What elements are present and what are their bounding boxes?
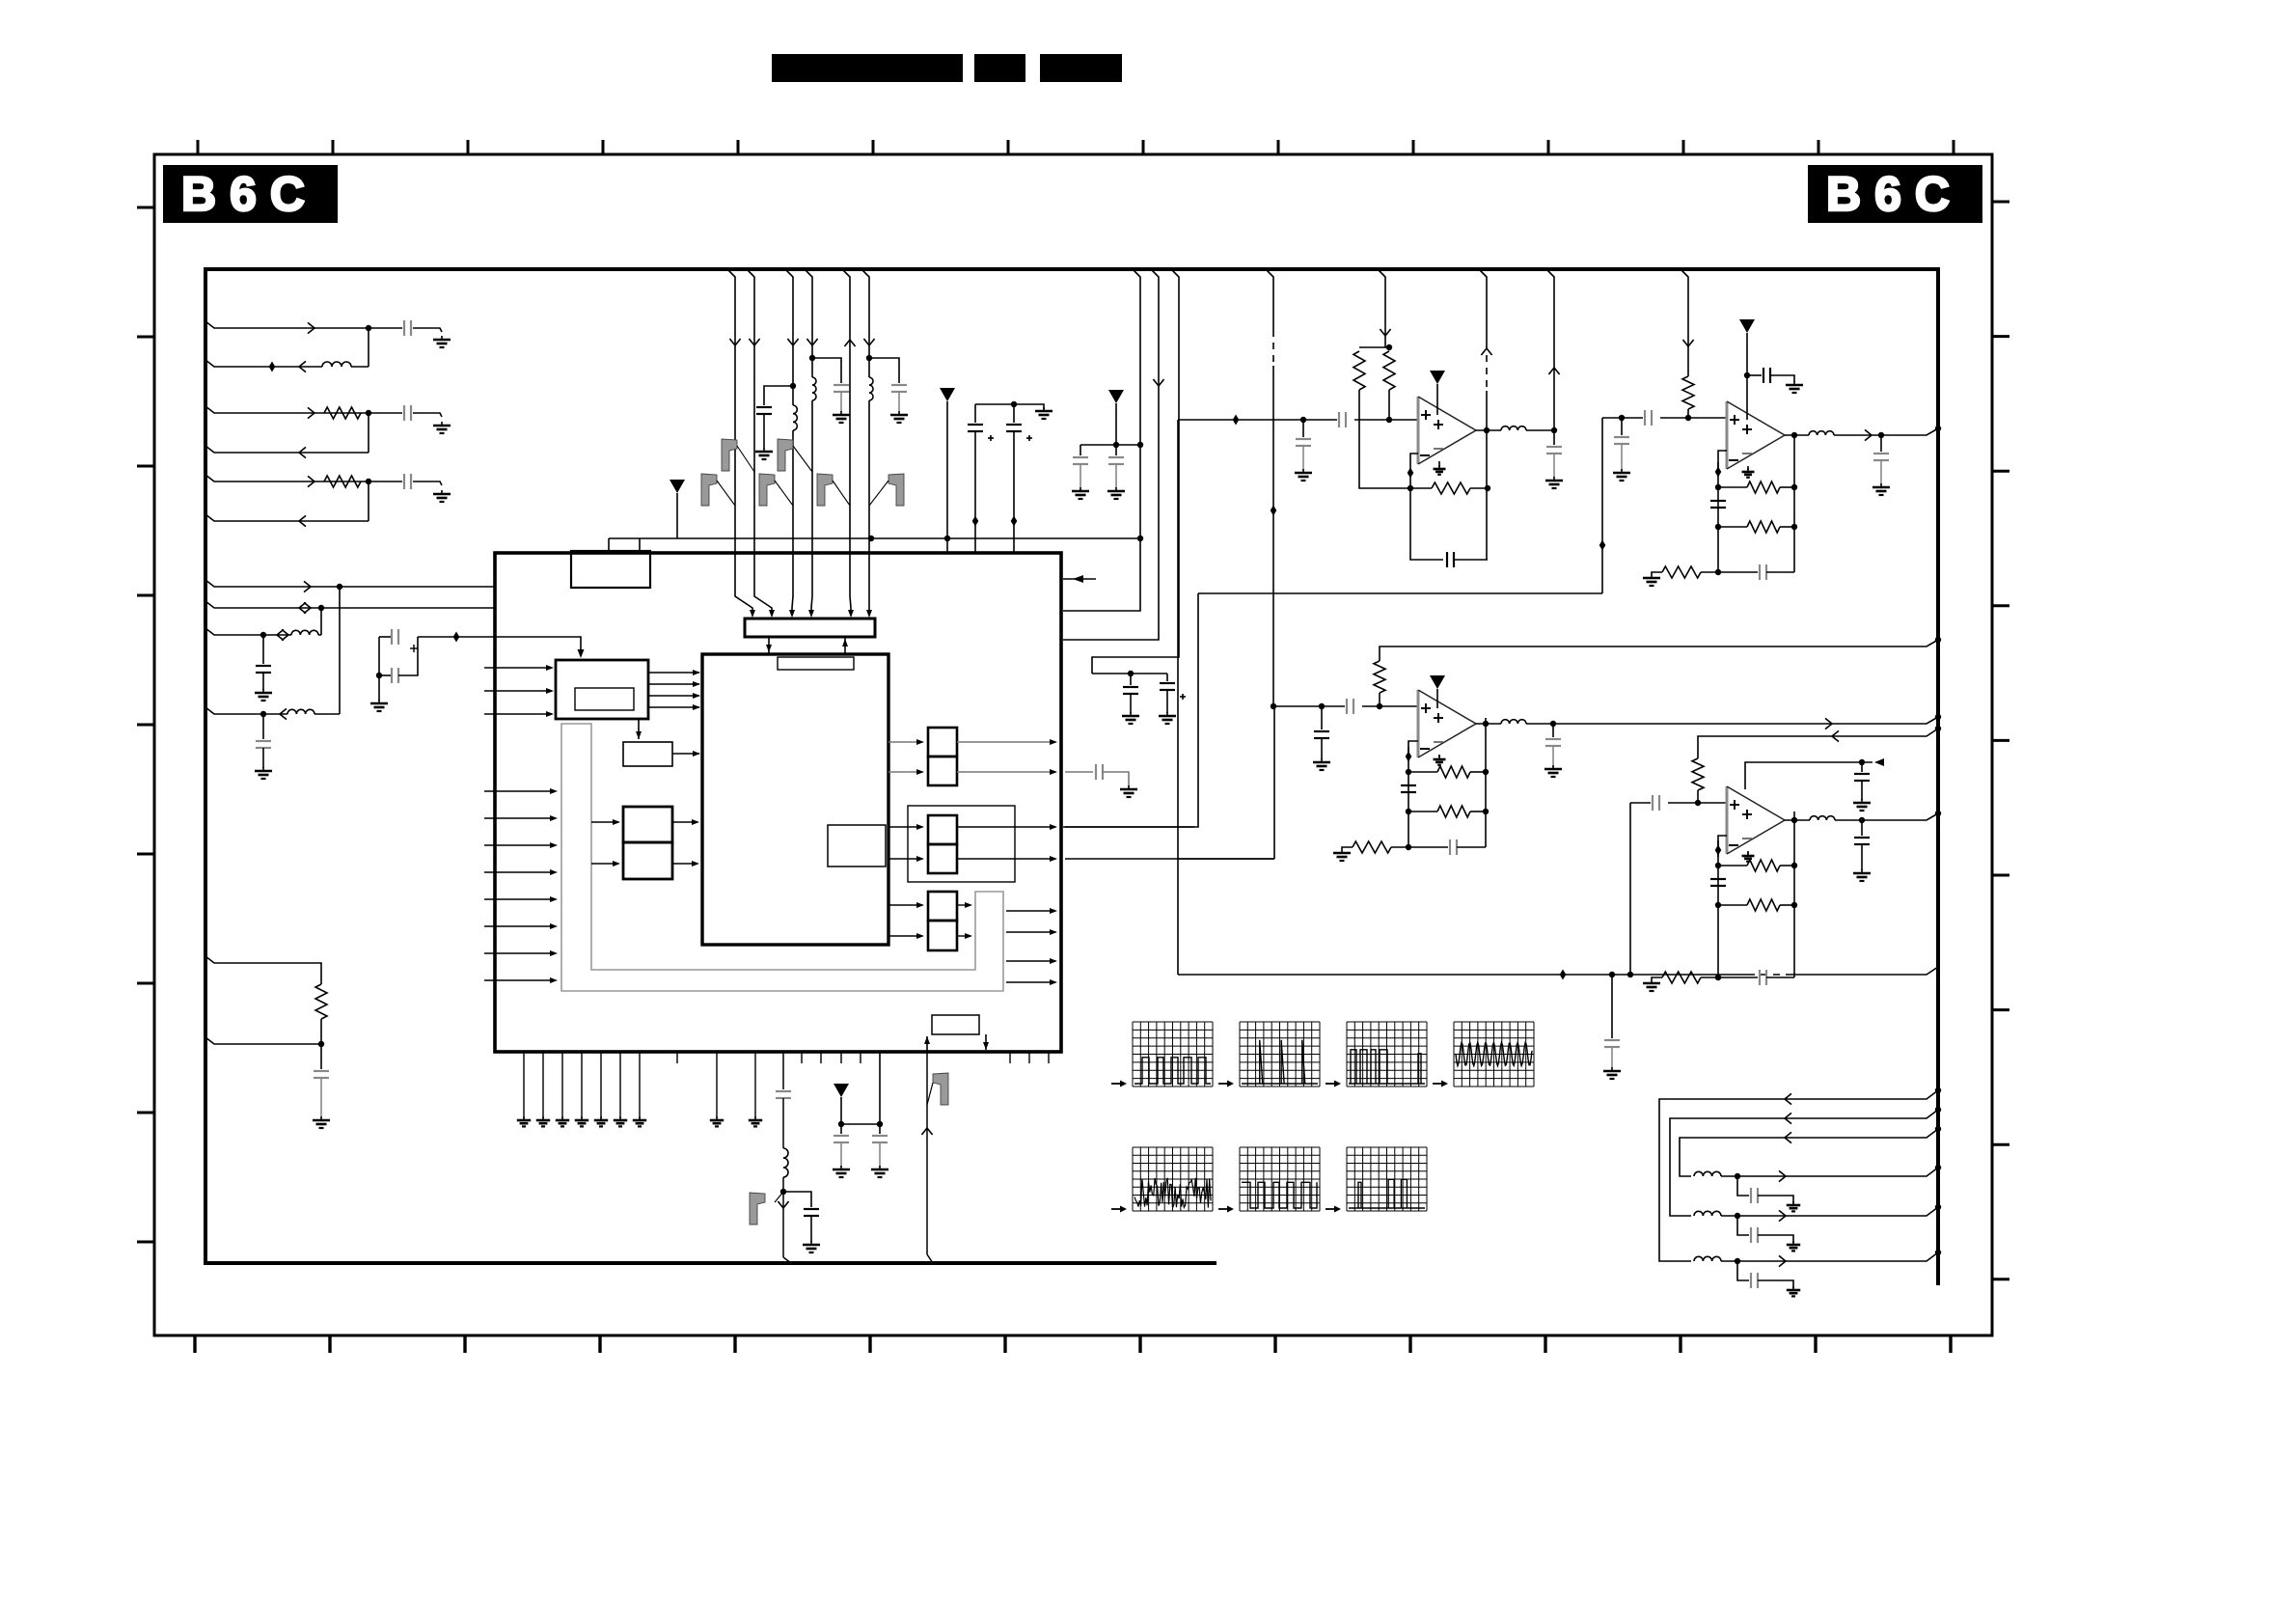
resistor R2 (324, 476, 361, 487)
wire net x=1320 upper (1266, 269, 1273, 330)
wire W79 (1718, 977, 1758, 978)
connector flag P1 (722, 439, 737, 471)
wire pin chain x=812 c (782, 1177, 784, 1257)
ground GND4 (255, 689, 272, 701)
wire net x=1320 lower (1272, 366, 1274, 706)
arrowhead AH17 (546, 688, 554, 694)
wire W78 (1701, 977, 1718, 978)
wire cap cluster rail (1092, 673, 1167, 674)
wire arrow A32 (1779, 1210, 1786, 1221)
node N4 (1011, 516, 1018, 527)
wire W18 (763, 414, 765, 449)
wire core to regD1 (888, 904, 922, 906)
node junction J50 (1483, 809, 1489, 814)
node N11 (1406, 752, 1412, 762)
wire W19 (840, 392, 842, 412)
capacitor C_f2g (1760, 564, 1766, 580)
wire pin chain x=812 b (782, 1098, 784, 1148)
capacitor C_s4 gap cover (1651, 801, 1668, 805)
wire W42 (1470, 487, 1488, 489)
wire IC pin x=912 (879, 1052, 881, 1124)
wire IC ground pin x=563 (542, 1052, 544, 1118)
node junction J52 (1483, 721, 1489, 727)
wire W68 (1457, 846, 1486, 848)
wire W28 (1115, 464, 1117, 488)
border scale ticks top (198, 140, 1954, 154)
node junction J1 (366, 325, 371, 331)
IC pin stub x=831 (801, 1052, 803, 1063)
wire IC ground pin x=623 (600, 1052, 602, 1118)
node junction J41 (1878, 432, 1884, 438)
arrowhead AH43 (1050, 908, 1057, 914)
wire IC pin stub y=1016 (484, 979, 556, 981)
node junction J25 (1300, 417, 1306, 423)
connector flag P5 (817, 474, 833, 506)
wire net y=670 to bus (1380, 640, 1938, 661)
arrowhead AH2 (750, 610, 755, 618)
wire W56 (1766, 571, 1794, 573)
node N1 (269, 362, 276, 372)
node junction J3 (366, 479, 371, 484)
ground GND34 (1872, 483, 1890, 495)
wire IC ground pin x=583 (561, 1052, 563, 1118)
wire W16 (639, 538, 641, 551)
wire f3 fb right vertical (1485, 718, 1487, 847)
node junction J46 (1935, 637, 1941, 643)
node junction J59 (1715, 902, 1721, 908)
wire W49 (1718, 486, 1747, 488)
ground GND17 (517, 1116, 531, 1126)
wire LC cap branch 1 (1737, 1261, 1749, 1280)
wire IC pin into decoder y=740 (484, 713, 552, 715)
wire LC channel 2 return (1721, 1207, 1938, 1216)
wire net IC y=857 riser x=1242 (1063, 593, 1198, 827)
wire regC2 ext to opamp net (1065, 858, 1274, 860)
wire LC channel 3 return (1721, 1168, 1938, 1176)
arrowhead AH28 (613, 861, 620, 867)
node junction J54 (1935, 714, 1941, 720)
wire arrow A8 (299, 602, 306, 613)
wire W12 (378, 675, 380, 701)
arrowhead AH4 (789, 610, 795, 618)
ground GND19 (556, 1116, 569, 1126)
resistor R_f2b (1747, 521, 1780, 533)
node N12 (1715, 845, 1722, 856)
arrowhead AH3 (769, 610, 775, 618)
wire input row y=340 (205, 321, 369, 328)
wire arrow A3 (308, 407, 314, 418)
resistor R_f4b (1747, 899, 1780, 911)
node N3 (972, 516, 979, 527)
title block redaction bar 2 (974, 54, 1025, 82)
wire core to regC1 (888, 826, 922, 828)
wire arrow A1 (308, 322, 314, 333)
arrowhead AH38 (1050, 856, 1057, 862)
flag P7 tail (775, 1192, 783, 1202)
wire gray-bus to regA2 (591, 863, 618, 865)
wire IC ground pin x=603 (581, 1052, 583, 1118)
inductor L_lc3 (1694, 1171, 1721, 1178)
flag P2 tail (793, 446, 812, 472)
node junction J22 (1137, 536, 1143, 541)
node junction J47 (1406, 769, 1411, 775)
wire pin chain diag (783, 1257, 791, 1263)
capacitor C9 (756, 407, 772, 414)
node N10 (1715, 467, 1722, 478)
capacitor C_p3 (834, 1136, 849, 1142)
capacitor C_lc2 (1751, 1227, 1758, 1243)
wire IC ground pin x=543 (523, 1052, 525, 1118)
wire f4 fb right vertical (1793, 811, 1795, 977)
node junction J21 (1137, 442, 1143, 448)
wire VCC3 rail (841, 1123, 880, 1125)
ground GND6 (370, 700, 388, 711)
node junction J38 (1791, 524, 1797, 530)
wire bus line 5 from top (842, 269, 851, 616)
arrowhead AH12 (693, 693, 700, 699)
ground GND11 (1035, 407, 1052, 419)
node junction J7 (260, 711, 266, 717)
wire bus line 2 from top (747, 269, 772, 616)
IC pin stub x=1047 (1009, 1052, 1011, 1063)
wire W82 (1861, 844, 1863, 870)
wire opamp2 output to bus (1834, 428, 1938, 435)
wire W14 (320, 1078, 322, 1117)
capacitor C_t4a (1854, 774, 1870, 781)
arrowhead AH40 (916, 933, 924, 939)
wire net row y=630 (205, 601, 495, 608)
wire arrow A14 (749, 339, 759, 345)
ground GND35 (1313, 758, 1330, 770)
capacitor C_s4 (series) (1653, 795, 1659, 811)
arrowhead AH46 (1050, 979, 1057, 985)
wire opamp4 gnd stem (1747, 851, 1749, 854)
wire W24 (1013, 431, 1015, 553)
wire W77 (1652, 977, 1662, 979)
arrowhead AH1 (578, 649, 585, 658)
node junction J55 (1935, 726, 1941, 731)
wire core to regC2 (888, 858, 922, 860)
capacitor C_r1 (1123, 687, 1138, 694)
wire R_a4 to input (1379, 693, 1380, 706)
latch box (623, 742, 672, 766)
node junction J39 (1715, 569, 1721, 575)
wire IC ground pin x=783 (754, 1052, 756, 1118)
wire opamp4 output (1785, 819, 1810, 821)
node junction J56 (1695, 800, 1701, 806)
wire return row y=469 (205, 446, 369, 453)
node junction J71 (1935, 1204, 1941, 1210)
wire arrow A24 (1548, 368, 1559, 374)
arrowhead AH13 (693, 704, 700, 710)
scope waveform display (sq2) (1240, 1147, 1320, 1211)
ground GND40 (1787, 1241, 1800, 1251)
wire LC channel 1 return (1721, 1252, 1938, 1261)
node junction J18 (780, 1189, 786, 1195)
svg-text:B6C: B6C (181, 167, 318, 221)
wire LC channel 2 feed (1670, 1110, 1938, 1216)
wire LC channel 3 feed (1680, 1129, 1938, 1176)
resistor R_f1 (1432, 482, 1470, 494)
wire opamp3 output (1476, 723, 1501, 725)
power supply symbol VA1 (1430, 371, 1445, 384)
wire W71 (1861, 762, 1863, 772)
ground GND18 (536, 1116, 550, 1126)
node junction J35 (1715, 484, 1721, 490)
wire W37 (879, 1142, 881, 1167)
node N9 (1408, 468, 1414, 479)
arrowhead AH42 (965, 933, 972, 939)
node junction J51 (1406, 844, 1411, 850)
flag P4 tail (775, 481, 793, 506)
ground GND32 (1613, 469, 1630, 481)
resistor bracket opamp1 (1359, 346, 1389, 348)
arrowhead AH44 (1050, 929, 1057, 935)
wire net x=1611 (1546, 269, 1554, 430)
wire W17 (676, 493, 678, 538)
capacitor C_s2 (series) (1645, 410, 1652, 426)
wire arrow A20 (921, 1128, 932, 1135)
register pair A upper (623, 807, 672, 842)
node junction J24 (1627, 972, 1633, 977)
wire opamp2 output (1785, 434, 1809, 436)
inductor L_p1 (781, 1148, 788, 1177)
arrowhead AH11 (693, 681, 700, 687)
wire LC channel 1 feed (1659, 1090, 1938, 1261)
wire y=1010 dashed segment (1748, 974, 1787, 976)
wire arrow A34 (1779, 1170, 1786, 1181)
capacitor C_lc1 (1751, 1273, 1758, 1288)
wire IC output stub y=966 (1006, 931, 1055, 933)
oscillator box on IC top (571, 551, 650, 588)
arrowhead AH18 (546, 711, 554, 717)
wire arrow A33 (1785, 1132, 1791, 1142)
scope arrow SA5 (1111, 1206, 1127, 1213)
wire W23 (1013, 404, 1015, 423)
wire opamp4 top tap (1745, 762, 1872, 789)
wire W33 (1166, 690, 1168, 713)
wire W69 (1552, 724, 1554, 737)
arrowhead AH29 (692, 819, 699, 825)
wire arrow A6 (299, 515, 306, 526)
wire W64 (1470, 811, 1486, 812)
zone label B6C top-left (163, 165, 338, 223)
register pair B upper (928, 728, 957, 756)
ground GND29 (1603, 1067, 1621, 1079)
wire regC1 out (957, 826, 1055, 828)
ground GND23 (633, 1116, 646, 1126)
wire W36 (879, 1124, 881, 1134)
wire branch to C_p2 (783, 1192, 811, 1207)
wire regC2 out (957, 858, 1055, 860)
node junction J13 (809, 355, 815, 361)
wire W11 (379, 674, 392, 676)
wire arrow A26 (1865, 429, 1872, 440)
node junction J2 (366, 410, 371, 416)
arrowhead AH34 (1050, 769, 1057, 775)
capacitor C8 (314, 1071, 329, 1078)
register pair C lower (928, 844, 957, 873)
power supply symbol VCC1 (670, 480, 685, 493)
resistor R_f3a (1437, 766, 1470, 778)
wire arrow A5 (308, 476, 314, 486)
resistor R_a2 (1383, 351, 1395, 390)
scope waveform display (noise) (1133, 1147, 1213, 1211)
wire elco node A top (379, 636, 392, 638)
node junction J11 (944, 536, 950, 541)
wire arrow A11 (282, 629, 288, 640)
wire W83 (1758, 1280, 1793, 1288)
wire arrow A23 (1481, 348, 1491, 355)
resistor R_f2c (1662, 566, 1701, 578)
node junction J36 (1715, 524, 1721, 530)
wire regD2 to gray bus (957, 935, 970, 937)
wire bus line 1 from top (727, 269, 752, 616)
wire opamp4 input (1630, 802, 1727, 804)
wire latch to core (672, 753, 699, 755)
wire W39 (1302, 420, 1304, 437)
capacitor C_s2 gap cover (1643, 416, 1660, 420)
capacitor C_f3g (1450, 839, 1457, 855)
wire return row y=540 (205, 514, 369, 521)
wire W4 (413, 413, 442, 417)
wire arrow A27 (1825, 718, 1832, 729)
wire regB2 ext (1065, 771, 1093, 773)
flag P6 tail (869, 481, 888, 506)
arrowhead AH36 (916, 856, 924, 862)
arrowhead AH14 (636, 731, 642, 739)
ground GND15 (1122, 712, 1139, 724)
wire arrow A2 (299, 361, 306, 371)
wire bus to opamp4 R (1698, 729, 1938, 758)
node junction J19 (838, 1121, 844, 1127)
capacitor C_n1 (1604, 1040, 1620, 1047)
wire core to regB1 (888, 741, 922, 743)
node N5 (1599, 540, 1606, 551)
wire x=1541 dashed (1486, 355, 1488, 391)
wire arrow A15 (787, 339, 798, 345)
ground f3 fb (1333, 849, 1351, 861)
register strip in core box (778, 657, 854, 670)
zone label B6C top-right (1808, 165, 1982, 223)
capacitor C_f3m (1401, 785, 1416, 792)
bottom status box in IC (932, 1015, 979, 1034)
wire LC cap branch 3 (1737, 1176, 1749, 1196)
ground f2 fb (1643, 574, 1660, 586)
ground GND7 (313, 1116, 330, 1128)
scope arrow SA6 (1218, 1206, 1234, 1213)
wire bus line 6 from top (861, 269, 869, 616)
node N2 (453, 632, 460, 643)
wire IC pin stub y=820 (484, 790, 556, 792)
node junction J4 (337, 584, 342, 590)
wire W52 (1780, 526, 1794, 528)
wire arrow A7 (304, 581, 311, 591)
inductor L_o2 (1809, 431, 1834, 437)
wire vertical x=352 (339, 587, 341, 714)
wire IC pin into decoder y=716 (484, 690, 552, 692)
wire IC pin stub y=876 (484, 844, 556, 846)
wire W31 (1130, 694, 1132, 713)
capacitor C_i2 (1614, 437, 1629, 444)
node junction J14 (866, 355, 872, 361)
wire down from status box (985, 1034, 987, 1050)
wire W43 (1526, 429, 1554, 431)
connector flag P6 (888, 474, 904, 506)
wire IC pin stub y=988 (484, 952, 556, 954)
ground GND27 (833, 1166, 850, 1177)
wire W1 (369, 327, 402, 329)
wire W48 (1770, 375, 1794, 382)
wire W55 (1718, 571, 1758, 573)
wire W34 (810, 1216, 812, 1242)
wire opamp1 feedback bottom (1454, 559, 1488, 561)
capacitor C_f4m (1710, 879, 1726, 886)
wire regC1 ext (1065, 826, 1194, 828)
capacitor C3 (404, 474, 411, 489)
capacitor C12 (1073, 457, 1088, 464)
border scale ticks left (137, 207, 154, 1242)
node junction J68 (1935, 1250, 1941, 1255)
wire bus line 4 from top (805, 269, 812, 616)
wire riser x=961 (926, 1052, 928, 1254)
arrowhead AH35 (916, 824, 924, 830)
node junction J43 (1271, 703, 1276, 709)
power supply symbol VCC2 (940, 388, 955, 401)
wire W40 (1302, 446, 1304, 470)
connector flag P8 (933, 1073, 948, 1105)
node junction J23 (1609, 972, 1615, 977)
wire R_a5 to input (1697, 790, 1699, 803)
wire W47 (1621, 444, 1623, 470)
op-amp U2B (1727, 401, 1785, 469)
flag P1 tail (737, 446, 754, 472)
op-amp U2A (1418, 397, 1476, 464)
register pair B lower (928, 756, 957, 785)
resistor R_a1 (1353, 351, 1365, 390)
wire W75 (1718, 904, 1747, 906)
wire W53 (1652, 572, 1662, 574)
ground opamp3 (1434, 756, 1446, 765)
node junction J5 (318, 605, 324, 611)
capacitor C1 (404, 320, 411, 336)
node N6 (1560, 970, 1567, 980)
wire arrow A9 (304, 602, 311, 613)
arrowhead AH23 (550, 896, 558, 902)
CPU core box inside IC (702, 654, 888, 945)
wire regA1 to core (672, 821, 697, 823)
arrowhead AH26 (550, 977, 558, 983)
arrowhead AH32 (916, 769, 924, 775)
wire IC output stub y=944 (1006, 910, 1055, 912)
node junction J58 (1715, 863, 1721, 868)
wire net row y=658 (205, 628, 321, 635)
ground GND5 (255, 767, 272, 779)
wire W59 (1321, 706, 1323, 729)
inductor L_b1 (791, 405, 797, 430)
capacitor C5 (256, 741, 271, 748)
wire arrow A30 (1779, 1255, 1786, 1266)
wire R_a2 to input (1388, 390, 1390, 420)
capacitor C_e1 (electrolytic) (968, 425, 994, 441)
title block redaction bar 3 (1040, 54, 1122, 82)
ground GND39 (1787, 1286, 1800, 1296)
border scale ticks bottom (195, 1335, 1951, 1353)
arrowhead AH30 (692, 861, 699, 867)
wire net x=1541 lower (1486, 391, 1488, 560)
ground GND3 (433, 490, 451, 502)
arrowhead AH48 (983, 1042, 989, 1050)
